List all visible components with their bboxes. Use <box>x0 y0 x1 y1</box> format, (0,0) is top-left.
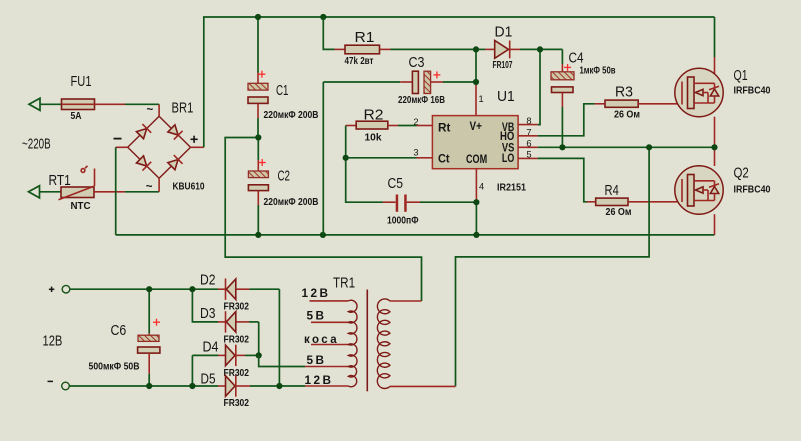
output terminal plus <box>62 285 70 293</box>
svg-text:C4: C4 <box>569 49 584 66</box>
minus sign output <box>48 380 54 382</box>
svg-text:5A: 5A <box>71 111 82 122</box>
svg-text:C1: C1 <box>276 82 289 99</box>
node dot rail C1 <box>255 14 261 20</box>
svg-text:26 Ом: 26 Ом <box>614 109 640 120</box>
wire LO pin5 to R4 <box>538 158 587 201</box>
svg-text:V+: V+ <box>470 121 483 133</box>
pin primary top <box>390 300 422 302</box>
wire D1 cathode to VB pin 8 <box>538 49 540 124</box>
wire bridge plus up to top rail <box>204 17 715 147</box>
node dot C1 C2 midpoint <box>255 134 261 140</box>
wire Ct row <box>346 157 417 159</box>
svg-text:C6: C6 <box>111 322 127 339</box>
node dot COM C5 <box>473 199 479 205</box>
pin FU1 right <box>95 103 126 105</box>
svg-text:220мкФ 200В: 220мкФ 200В <box>264 110 319 121</box>
thermistor RT1 <box>59 166 95 200</box>
wire capacitor midpoint to transformer primary top <box>225 138 421 302</box>
pin tap 5V lower to coil <box>305 366 348 368</box>
wire R2 to Ct and C5 <box>346 126 383 203</box>
node dot D1 anode <box>473 46 479 52</box>
diode D2 <box>218 279 279 300</box>
svg-text:C3: C3 <box>409 54 425 71</box>
node dot VS primary <box>646 144 652 150</box>
svg-text:U1: U1 <box>497 88 515 105</box>
svg-text:4: 4 <box>479 181 484 191</box>
node dot minus diode column <box>189 383 195 389</box>
svg-text:NTC: NTC <box>71 201 91 212</box>
svg-text:IR2151: IR2151 <box>497 183 527 194</box>
pin tap center braid <box>311 344 348 346</box>
capacitor C5 <box>383 195 476 212</box>
svg-text:R4: R4 <box>605 182 619 199</box>
wire RT1 left <box>40 191 62 193</box>
svg-text:D5: D5 <box>201 371 216 388</box>
transistor Q2 IRFBC40 <box>675 166 723 214</box>
pin U1 pin1 V+ <box>475 82 477 116</box>
svg-text:IRFBC40: IRFBC40 <box>734 85 771 96</box>
transformer TR1 primary winding <box>377 299 390 389</box>
input terminal arrow bottom (N) <box>29 186 40 198</box>
node dot C3 pin1 <box>473 79 479 85</box>
pin U1 pin8 stub <box>518 124 538 126</box>
resistor R3 <box>595 100 682 107</box>
capacitor C2 <box>248 138 268 235</box>
svg-text:D1: D1 <box>495 23 513 40</box>
diode D1 <box>476 41 540 59</box>
node dot D1 cathode VB <box>537 46 543 52</box>
pin U1 pin4 COM <box>475 169 477 203</box>
transformer TR1 secondary winding <box>348 300 357 386</box>
wire bridge minus down to ground rail <box>115 147 117 235</box>
svg-text:R3: R3 <box>615 83 633 100</box>
node dot rail R1 <box>320 14 326 20</box>
svg-text:220мкФ 16В: 220мкФ 16В <box>398 95 445 106</box>
pin U1 pin2 stub <box>417 125 433 127</box>
node dot COM ground rail <box>473 232 479 238</box>
svg-text:~: ~ <box>146 181 153 193</box>
svg-text:C2: C2 <box>278 168 291 185</box>
node dot C3 ground <box>320 232 326 238</box>
wire D4 anode join D5 <box>191 355 193 386</box>
node dot R2 Ct <box>343 155 349 161</box>
pin U1 pin7 stub <box>518 135 538 137</box>
pin Q2 drain from VS node <box>714 147 716 166</box>
svg-text:Q1: Q1 <box>734 67 748 84</box>
svg-text:FR107: FR107 <box>493 60 513 71</box>
svg-text:LO: LO <box>502 153 514 165</box>
resistor R2 <box>346 121 417 129</box>
svg-text:FR302: FR302 <box>224 334 250 345</box>
svg-text:R2: R2 <box>364 106 384 123</box>
node dot D2 tap 12V <box>276 383 282 389</box>
pin RT1 right <box>94 191 125 193</box>
svg-text:26 Ом: 26 Ом <box>606 207 632 218</box>
wire D3 anode down to D4 cathode <box>258 322 260 356</box>
bridge top stub <box>158 104 160 116</box>
svg-text:D3: D3 <box>200 305 216 322</box>
svg-text:3: 3 <box>413 148 418 158</box>
svg-text:~: ~ <box>147 104 154 116</box>
bridge diode bottom-left <box>136 155 152 171</box>
svg-text:Q2: Q2 <box>734 164 749 181</box>
wire minus row <box>69 385 218 387</box>
svg-text:RT1: RT1 <box>49 172 71 189</box>
pin U1 pin5 stub <box>518 157 538 159</box>
wire VS to transformer primary bottom <box>456 147 650 386</box>
pin U1 pin3 stub <box>417 157 433 159</box>
wire 5V tap elbow <box>259 355 305 366</box>
svg-text:~220В: ~220В <box>22 136 51 153</box>
svg-text:Ct: Ct <box>438 154 450 166</box>
pin tap 5V upper <box>311 321 348 323</box>
diode D4 <box>192 345 258 366</box>
bridge diode bottom-right <box>167 155 183 171</box>
svg-text:500мкФ 50В: 500мкФ 50В <box>89 361 140 372</box>
wire plus row <box>70 288 218 290</box>
pin tap 12V upper <box>310 300 349 302</box>
node dot VS C4 <box>559 144 565 150</box>
bridge bottom stub <box>158 178 160 192</box>
resistor R4 <box>587 198 682 205</box>
diode D3 <box>218 311 259 332</box>
svg-text:TR1: TR1 <box>333 275 355 292</box>
svg-text:BR1: BR1 <box>172 100 194 117</box>
svg-text:COM: COM <box>466 154 487 166</box>
bridge BR1 diamond <box>128 116 191 178</box>
input terminal arrow top (L phase) <box>29 98 40 110</box>
capacitor C4 <box>540 49 574 147</box>
svg-text:коса: коса <box>304 334 339 346</box>
node dot D3 D4 tap <box>256 352 262 358</box>
capacitor C6 <box>138 289 160 386</box>
svg-text:47k 2вт: 47k 2вт <box>345 56 374 67</box>
bridge right stub (plus) <box>191 146 204 148</box>
svg-text:5В: 5В <box>307 355 327 367</box>
svg-text:D4: D4 <box>203 339 219 356</box>
svg-text:Rt: Rt <box>438 123 451 135</box>
svg-text:IRFBC40: IRFBC40 <box>734 184 771 195</box>
op-amp U1 IR2151 body <box>432 116 518 169</box>
svg-text:D2: D2 <box>200 272 216 289</box>
wire D2 D3 cathode join <box>192 289 218 322</box>
wire HO pin7 to R3 <box>538 104 595 136</box>
fuse FU1 <box>62 99 95 110</box>
plus sign output <box>49 287 54 292</box>
wire C3 minus down to ground rail <box>322 82 324 235</box>
diode D5 <box>218 375 305 396</box>
pin U1 pin6 stub <box>518 146 538 148</box>
svg-text:12В: 12В <box>305 375 334 387</box>
svg-text:1мкФ 50в: 1мкФ 50в <box>580 65 616 76</box>
svg-text:1000пФ: 1000пФ <box>387 215 419 226</box>
svg-text:5В: 5В <box>307 310 327 322</box>
node dot C2 ground <box>255 232 261 238</box>
node dot VS Q1 Q2 <box>711 144 717 150</box>
wire top rail down to Q1 drain <box>714 17 716 57</box>
pin tap 12V lower to coil <box>305 385 348 387</box>
svg-text:R1: R1 <box>355 29 375 46</box>
wire RT1 to bridge <box>125 191 159 193</box>
bridge diode top-right <box>167 124 183 140</box>
svg-text:FU1: FU1 <box>71 73 92 90</box>
svg-text:HO: HO <box>500 131 514 143</box>
svg-text:12В: 12В <box>302 288 331 300</box>
svg-text:10k: 10k <box>365 132 383 143</box>
svg-text:220мкФ 200В: 220мкФ 200В <box>264 197 319 208</box>
svg-text:1: 1 <box>479 94 484 104</box>
ground rail (bridge minus bus) <box>116 234 715 236</box>
pin Q2 source down <box>714 214 716 235</box>
svg-text:FR302: FR302 <box>224 398 250 409</box>
wire D2 anode down to 12V tap <box>278 289 280 386</box>
svg-text:C5: C5 <box>388 175 404 192</box>
capacitor C1 <box>248 17 268 138</box>
pin Q1 source to VS node <box>714 117 716 148</box>
pin primary bottom <box>390 385 456 387</box>
wire fuse to bridge <box>125 103 159 105</box>
transistor Q1 IRFBC40 <box>675 68 723 116</box>
pin Q1 drain <box>714 57 716 84</box>
output terminal minus <box>62 382 70 390</box>
bridge diode top-left <box>136 124 152 140</box>
bridge plus sign <box>191 136 198 143</box>
wire VS row <box>538 146 715 148</box>
svg-text:KBU610: KBU610 <box>173 181 205 192</box>
capacitor C3 <box>323 71 476 93</box>
resistor R1 <box>323 17 476 54</box>
bridge minus sign <box>114 138 122 140</box>
bridge left stub (minus) <box>116 146 128 148</box>
svg-text:12В: 12В <box>43 333 63 350</box>
node dot plus C6 <box>146 286 152 292</box>
node dot minus C6 <box>146 383 152 389</box>
wire D1 anode node down to pin 1 <box>475 49 477 82</box>
transformer TR1 core <box>366 290 368 392</box>
node dot plus diode column <box>189 286 195 292</box>
wire FU1 left <box>40 103 62 105</box>
wire COM node down to ground rail <box>475 202 477 235</box>
